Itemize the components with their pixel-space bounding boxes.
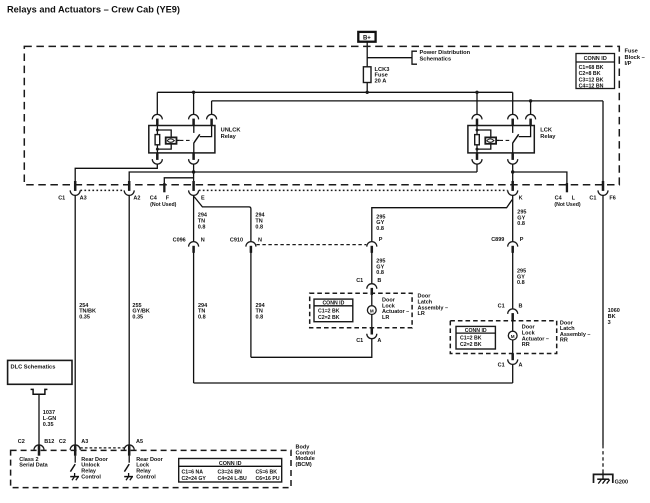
svg-text:B12: B12	[44, 439, 54, 445]
svg-text:C2=24 GY: C2=24 GY	[182, 476, 207, 482]
svg-text:C1=2 BK: C1=2 BK	[318, 308, 340, 314]
connector C2 pin B12 (BCM)	[34, 445, 44, 456]
svg-text:C1=2 BK: C1=2 BK	[460, 336, 482, 342]
connector P (LR)	[367, 242, 377, 253]
wire label 295 GY 0.8 (LR lower)	[376, 259, 385, 277]
svg-text:C5=6 BK: C5=6 BK	[256, 469, 278, 475]
svg-text:C4: C4	[555, 195, 563, 201]
wire link UNLCK to LCK coil	[194, 171, 477, 173]
svg-text:Power Distribution: Power Distribution	[420, 50, 471, 56]
svg-text:Schematics: Schematics	[420, 57, 452, 63]
svg-text:A: A	[377, 338, 381, 344]
UNLCK relay switch bottom pin connector	[189, 153, 199, 164]
LCK relay coil top pin connector	[472, 114, 482, 125]
connector C096	[189, 242, 199, 253]
connector C1 pin B (RR)	[508, 309, 518, 320]
label Class 2 Serial Data	[19, 457, 48, 469]
LCK relay output top pin connector	[526, 114, 536, 125]
wire label 295 GY 0.8 (K)	[517, 210, 526, 228]
dotted link A3-A5	[80, 447, 124, 449]
LCK relay switch bottom pin connector	[508, 153, 518, 164]
relay LCK U58	[468, 126, 534, 153]
connector table LR CONN ID	[314, 299, 353, 322]
svg-text:A: A	[519, 363, 523, 369]
wire K down	[512, 195, 514, 241]
svg-text:Control: Control	[81, 474, 101, 480]
svg-text:C899: C899	[491, 237, 504, 243]
connector pin K	[508, 181, 518, 195]
svg-text:CONN ID: CONN ID	[322, 301, 344, 307]
wire A3 down to BCM	[74, 195, 76, 445]
motor door lock actuator RR	[508, 320, 517, 354]
svg-text:E: E	[201, 195, 205, 201]
svg-text:C4=24 L-BU: C4=24 L-BU	[218, 476, 248, 482]
svg-text:C1=68 BK: C1=68 BK	[579, 65, 604, 71]
svg-text:C3=24 BN: C3=24 BN	[218, 469, 243, 475]
svg-text:UNLCK: UNLCK	[221, 128, 242, 134]
svg-text:0.8: 0.8	[198, 314, 206, 320]
svg-text:0.8: 0.8	[198, 224, 206, 230]
svg-text:C910: C910	[230, 237, 243, 243]
junction dot bus1/LCK	[475, 91, 478, 94]
switch	[512, 126, 514, 133]
junction dot LCK out	[511, 170, 514, 173]
svg-text:0.8: 0.8	[376, 226, 384, 232]
diode box	[485, 137, 496, 143]
wire bus2 to LCK pin3	[530, 101, 532, 115]
wire RR rise	[512, 364, 514, 383]
fuse block I/P boundary (dashed)	[24, 46, 619, 184]
fuse LCK3 20A	[363, 67, 389, 93]
label Door Lock Actuator - LR	[382, 298, 409, 321]
wire link to A2	[129, 172, 193, 181]
svg-text:0.8: 0.8	[255, 224, 263, 230]
svg-text:C096: C096	[173, 237, 186, 243]
junction dot bus2/LCK pin3	[529, 99, 532, 102]
wire bus1 to UNLCK coil pin	[156, 92, 158, 114]
svg-text:CONN ID: CONN ID	[584, 56, 607, 62]
svg-text:A2: A2	[133, 195, 140, 201]
connector table fuse block CONN ID	[576, 54, 615, 90]
svg-text:0.8: 0.8	[517, 221, 525, 227]
label Body Control Module (BCM)	[296, 445, 316, 468]
wire label 254 TN/BK 0.35	[79, 303, 96, 321]
svg-text:A3: A3	[80, 195, 87, 201]
svg-text:C1: C1	[356, 278, 363, 284]
junction dot bus1/UNLCK	[192, 91, 195, 94]
svg-text:C1: C1	[356, 338, 363, 344]
wire label 294 TN 0.8 (below C096)	[198, 303, 208, 321]
wire C899 to RR B	[512, 252, 514, 309]
svg-text:CONN ID: CONN ID	[465, 328, 487, 334]
wire C910 down	[250, 252, 252, 357]
UNLCK relay output top pin connector	[207, 114, 217, 125]
svg-text:Relay: Relay	[540, 134, 556, 140]
junction dot fuse/bus1	[366, 91, 369, 94]
connector C1 pin A (LR)	[367, 328, 377, 339]
wire B+ to fuse	[366, 42, 368, 67]
svg-text:C1=6 NA: C1=6 NA	[182, 469, 204, 475]
svg-text:Control: Control	[136, 474, 156, 480]
wire label 294 TN 0.8 (below C910)	[256, 303, 266, 321]
wire label 294 TN 0.8 (left)	[198, 213, 208, 231]
motor door lock actuator LR	[367, 295, 376, 328]
wire UNLCK coil out to C1/A3	[75, 164, 157, 181]
svg-text:RR: RR	[560, 338, 568, 344]
wire C096 down	[193, 252, 195, 383]
svg-text:Relay: Relay	[221, 134, 237, 140]
label Fuse Block - I/P	[625, 49, 645, 68]
wire UNLCK switch out junction	[193, 164, 195, 181]
svg-text:C1: C1	[58, 195, 65, 201]
dotted link A3-A2	[80, 189, 124, 191]
svg-text:C2: C2	[59, 439, 66, 445]
svg-text:Relays and Actuators – Crew Ca: Relays and Actuators – Crew Cab (YE9)	[7, 3, 180, 14]
wire label 294 TN 0.8 (right)	[255, 213, 265, 231]
svg-text:0.8: 0.8	[517, 280, 525, 286]
wire bus1 to UNLCK switch pin	[193, 92, 195, 114]
svg-text:RR: RR	[522, 342, 530, 348]
wire LR bottom run	[251, 339, 372, 358]
connector C1 pin A (RR)	[508, 353, 518, 364]
door latch assembly RR boundary	[450, 321, 556, 354]
LCK relay coil bottom pin connector	[472, 153, 482, 164]
label Rear Door Lock Relay Control	[136, 457, 163, 480]
connector table BCM CONN ID	[179, 459, 282, 483]
svg-text:C4=12 BN: C4=12 BN	[579, 84, 604, 90]
connector C899 P (RR)	[508, 242, 518, 253]
label Door Latch Assembly - RR	[560, 320, 591, 343]
connector C910	[246, 242, 256, 253]
svg-text:P: P	[379, 237, 383, 243]
UNLCK relay coil top pin connector	[152, 114, 162, 125]
wire label 1060 BK 3	[608, 308, 620, 326]
wire bus2 to UNLCK pin3	[211, 101, 213, 115]
svg-text:20 A: 20 A	[375, 79, 387, 85]
svg-text:B: B	[519, 304, 523, 310]
svg-text:(BCM): (BCM)	[296, 462, 312, 468]
DLC continuation bracket	[31, 389, 48, 394]
svg-text:C2: C2	[18, 439, 25, 445]
wire E down	[193, 195, 195, 241]
svg-text:CONN ID: CONN ID	[219, 461, 242, 467]
svg-text:C2=8 BK: C2=8 BK	[579, 71, 601, 77]
label Rear Door Unlock Relay Control	[81, 457, 108, 480]
diode box	[166, 137, 177, 143]
wire E branch diagonal	[194, 197, 251, 242]
UNLCK relay switch top pin connector	[189, 114, 199, 125]
wire LCK coil out	[476, 164, 478, 172]
wire bus2 right corner down to F6	[602, 101, 604, 181]
DLC schematics box	[8, 360, 72, 384]
dashed link C910 to P	[256, 244, 366, 246]
LCK relay switch top pin connector	[508, 114, 518, 125]
svg-text:G200: G200	[615, 480, 628, 486]
driver rear door lock relay control	[124, 456, 133, 481]
svg-text:M: M	[370, 308, 374, 313]
wire DLC to BCM B12	[38, 394, 40, 445]
svg-text:Serial Data: Serial Data	[19, 463, 48, 469]
svg-text:LR: LR	[418, 311, 425, 317]
svg-text:C2=2 BK: C2=2 BK	[460, 342, 482, 348]
stub C4 F not used	[163, 178, 193, 193]
connector table RR CONN ID	[456, 326, 495, 349]
svg-text:0.35: 0.35	[79, 314, 90, 320]
connector C1 pin A3	[70, 181, 80, 195]
svg-text:C1: C1	[498, 304, 505, 310]
connector pin E	[189, 181, 199, 195]
svg-text:0.35: 0.35	[132, 314, 143, 320]
svg-text:C3=12 BK: C3=12 BK	[579, 77, 604, 83]
battery feed B+	[358, 32, 375, 42]
wire bus1 to LCK coil pin	[476, 92, 478, 114]
svg-text:DLC Schematics: DLC Schematics	[11, 364, 56, 370]
dotted link E-K	[199, 189, 508, 191]
svg-text:P: P	[520, 237, 524, 243]
connector C1 pin B (LR)	[367, 284, 377, 295]
connector C1 pin F6	[598, 181, 608, 195]
connector pin A5 (BCM)	[124, 445, 134, 456]
stub C4 L not used	[513, 172, 568, 192]
label Door Latch Assembly - LR	[418, 294, 449, 317]
svg-text:C1: C1	[498, 363, 505, 369]
svg-text:A5: A5	[136, 439, 143, 445]
mech link dash	[496, 139, 499, 141]
wire A2 down to BCM	[128, 195, 130, 445]
BCM pin labels	[18, 439, 143, 445]
pin labels row	[58, 195, 616, 208]
svg-text:M: M	[511, 334, 515, 339]
junction dot UNLCK out	[192, 170, 195, 173]
door latch assembly LR boundary	[310, 293, 412, 328]
connector pin A2	[124, 181, 134, 195]
body control module boundary	[11, 450, 291, 487]
wire F6 down	[602, 195, 604, 445]
wire P to LR B	[371, 252, 373, 284]
coil	[156, 126, 158, 135]
wire K branch diagonal	[372, 200, 512, 242]
svg-text:N: N	[201, 237, 205, 243]
svg-text:Fuse: Fuse	[625, 49, 638, 55]
wire label 1037 L-GN 0.35	[43, 410, 56, 428]
wire label 295 GY 0.8 (RR lower)	[517, 269, 526, 287]
svg-text:C6=16 PU: C6=16 PU	[256, 476, 280, 482]
wire bus2	[212, 100, 603, 102]
relay UNLCK U57	[149, 126, 215, 153]
svg-text:(Not Used): (Not Used)	[554, 202, 580, 208]
wire label 255 GY/BK 0.35	[132, 303, 149, 321]
svg-text:C2=2 BK: C2=2 BK	[318, 315, 340, 321]
diode loop	[477, 130, 491, 149]
wire label 295 GY 0.8 (LR upper)	[376, 214, 385, 232]
connector C2 pin A3 (BCM)	[70, 445, 80, 456]
svg-text:B: B	[377, 278, 381, 284]
svg-text:LR: LR	[382, 315, 389, 321]
svg-text:0.8: 0.8	[256, 314, 264, 320]
svg-text:C1: C1	[589, 195, 596, 201]
diode loop	[157, 130, 171, 149]
mech link dash	[177, 139, 180, 141]
wire bottom run to RR	[194, 382, 513, 384]
UNLCK relay coil bottom pin connector	[152, 153, 162, 164]
label Door Lock Actuator - RR	[522, 325, 549, 348]
svg-text:I/P: I/P	[625, 61, 632, 67]
svg-text:C4: C4	[150, 195, 158, 201]
svg-text:N: N	[258, 237, 262, 243]
svg-text:3: 3	[608, 320, 611, 326]
svg-text:F6: F6	[609, 195, 615, 201]
wire F6 dashed drop to ground	[602, 445, 604, 471]
wire bus1	[157, 91, 512, 93]
svg-text:(Not Used): (Not Used)	[150, 202, 176, 208]
svg-text:B+: B+	[363, 36, 371, 42]
svg-text:K: K	[519, 195, 523, 201]
svg-text:LCK: LCK	[540, 128, 553, 134]
ground G200	[594, 471, 629, 485]
wire bus1 end to LCK switch pin	[512, 92, 514, 114]
wire LCK switch out	[512, 164, 514, 181]
coil	[476, 126, 478, 135]
switch	[193, 126, 195, 133]
callout Power Distribution Schematics	[367, 50, 470, 64]
svg-text:A3: A3	[81, 439, 88, 445]
svg-text:0.35: 0.35	[43, 422, 54, 428]
svg-text:Block –: Block –	[625, 55, 645, 61]
driver rear door unlock relay control	[70, 456, 79, 481]
svg-text:0.8: 0.8	[376, 270, 384, 276]
